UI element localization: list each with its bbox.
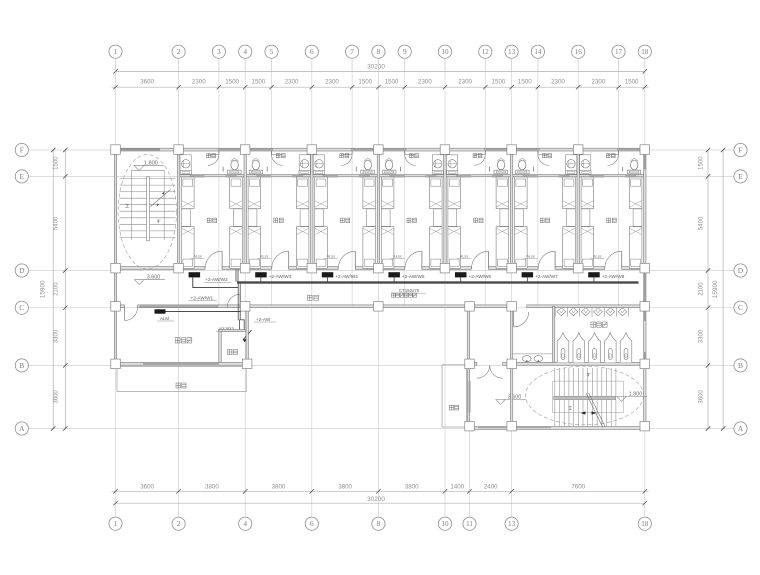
module 6 bed left top: [515, 177, 528, 209]
bottom axis circle 13: [505, 517, 518, 530]
module 6 washbasin: [566, 155, 577, 174]
staircase right break line: [586, 394, 603, 428]
module 2 bed right top: [296, 177, 309, 209]
column F/16: [574, 145, 584, 155]
module 4 toilet: [385, 160, 392, 170]
washroom door: [513, 308, 515, 327]
module 7 balcony label 阳台: [606, 154, 615, 158]
column B/11: [465, 359, 475, 369]
column A/13: [507, 421, 517, 431]
corridor door near riser: [239, 294, 241, 307]
staircase right landing bar: [554, 396, 616, 399]
svg-text:1500: 1500: [492, 79, 506, 86]
module 3 desk left: [315, 209, 324, 227]
column D/1: [111, 263, 121, 273]
staircase left break line + arrows: [151, 190, 171, 207]
module 5 balcony band: [484, 148, 507, 151]
module 1 bed right top: [230, 177, 243, 209]
stall 4: [605, 333, 617, 363]
svg-text:+2-AW/W7: +2-AW/W7: [535, 274, 558, 279]
corridor label 走廊: [308, 295, 319, 300]
svg-text:3600: 3600: [140, 79, 154, 86]
svg-text:+2-AW/W4: +2-AW/W4: [335, 274, 358, 279]
riser +2-AW vertical: [237, 284, 239, 321]
stair down mark right: [587, 374, 590, 377]
staircase right ellipse: [526, 366, 644, 425]
staircase right treads: [554, 368, 556, 396]
module 4 bed left top: [381, 177, 394, 209]
wire from W2 box: [193, 277, 239, 287]
module 5 balcony label 阳台: [473, 154, 482, 158]
svg-text:3800: 3800: [205, 483, 219, 490]
stall 1: [557, 333, 569, 363]
top axis circle 13: [505, 45, 518, 58]
bottom axis circle 6: [305, 517, 318, 530]
module 3 partition + door: [351, 151, 353, 154]
axis grid vertical lines: [115, 58, 117, 517]
top axis circle 7: [346, 45, 359, 58]
wall grid13 B-A: [510, 364, 512, 430]
left axis circle A: [15, 422, 28, 435]
svg-text:13: 13: [508, 520, 516, 528]
svg-text:E: E: [738, 172, 743, 181]
column D/4: [240, 263, 250, 273]
direction arrows: [581, 411, 586, 414]
svg-text:B: B: [738, 361, 743, 370]
module 3 desk right: [367, 209, 376, 227]
urinal 4: [594, 308, 603, 316]
svg-text:2300: 2300: [325, 79, 339, 86]
urinal 2: [569, 308, 578, 316]
wall poche segments east wall: [644, 272, 646, 321]
module 1 bed left top: [182, 177, 195, 209]
right dimension lines: [707, 150, 709, 429]
top axis circle 17: [612, 45, 625, 58]
ALM box: [155, 309, 166, 313]
stair up mark: [125, 204, 128, 207]
svg-text:1500: 1500: [54, 156, 60, 170]
column B/4: [242, 359, 252, 369]
module 7 bed left top: [581, 177, 594, 209]
module 6 room label 寝室: [540, 218, 549, 223]
module 5 room label 寝室: [474, 218, 483, 223]
west wall poche + A wall window segs: [469, 381, 471, 413]
module 1 toilet: [231, 160, 238, 170]
canopy right label 雨棚: [449, 405, 458, 410]
module 7 bed left bottom: [581, 227, 594, 269]
svg-text:ALss: ALss: [460, 255, 469, 259]
outer wall east (grid 18): [644, 148, 646, 429]
lower-right block west wall: [467, 306, 469, 429]
column B/18: [640, 359, 650, 369]
svg-text:10: 10: [441, 520, 449, 528]
top segment dimension line: [112, 86, 649, 88]
module 5 desk left: [448, 209, 457, 227]
svg-text:F: F: [738, 145, 742, 154]
column C/18: [640, 302, 650, 312]
svg-text:30200: 30200: [367, 63, 385, 70]
svg-text:C: C: [19, 303, 24, 312]
svg-text:1500: 1500: [225, 79, 239, 86]
svg-text:ALss: ALss: [260, 255, 269, 259]
column F/6: [307, 145, 317, 155]
svg-text:6: 6: [310, 47, 314, 56]
svg-text:11: 11: [466, 520, 473, 528]
svg-text:ALss: ALss: [593, 255, 602, 259]
svg-text:1500: 1500: [358, 79, 372, 86]
washroom divider wall: [552, 306, 554, 364]
module 6 desk left: [515, 209, 524, 227]
svg-text:+2-AW/W1: +2-AW/W1: [191, 296, 214, 301]
svg-text:D: D: [738, 266, 744, 275]
bottom axis circle 11: [463, 517, 476, 530]
module 7 toilet: [631, 160, 638, 170]
svg-text:4: 4: [243, 519, 247, 528]
module 2 balcony label 阳台: [276, 154, 285, 158]
module 4 balcony label 阳台: [409, 154, 418, 158]
staircase left treads: [120, 178, 176, 180]
svg-text:B: B: [19, 361, 24, 370]
module 2 partition + door: [271, 151, 273, 154]
stair up mark right: [569, 407, 572, 410]
module 1 balcony label 阳台: [207, 154, 216, 158]
column D/2: [174, 263, 184, 273]
svg-text:18: 18: [641, 520, 649, 528]
svg-text:ALss: ALss: [526, 255, 535, 259]
lower-right block bottom wall (A row): [466, 427, 646, 430]
room divider wall grid x=445: [444, 151, 446, 270]
room divider wall grid x=512: [510, 151, 512, 270]
svg-text:16: 16: [575, 48, 583, 56]
room divider wall grid x=312: [311, 151, 313, 270]
column D/16: [574, 263, 584, 273]
washroom counter: [513, 353, 553, 355]
module 2 bed left bottom: [248, 227, 261, 269]
svg-text:15900: 15900: [712, 280, 719, 298]
bottom axis circle 2: [172, 517, 185, 530]
distribution box +2-AW/W6: [455, 272, 467, 277]
urinal 1: [557, 308, 566, 316]
B row wall lower-left block: [114, 362, 248, 365]
top axis circle 14: [531, 45, 544, 58]
module 1 bed right bottom: [230, 227, 243, 269]
svg-text:17: 17: [615, 48, 623, 56]
left axis circle E: [15, 170, 28, 183]
module 6 desk right: [567, 209, 576, 227]
svg-text:1500: 1500: [699, 156, 705, 170]
module 6 bed left bottom: [515, 227, 528, 269]
column B/13: [507, 359, 517, 369]
svg-text:8: 8: [377, 47, 381, 56]
svg-text:2: 2: [177, 519, 181, 528]
module 4 room door: [421, 251, 423, 268]
distribution box +2-AW/W8: [588, 272, 600, 277]
room divider wall grid x=378: [377, 151, 379, 270]
module 6 balcony label 阳台: [543, 154, 552, 158]
svg-text:7: 7: [350, 47, 354, 56]
feeder arrow: [243, 330, 252, 340]
wall C row corridor south: [114, 305, 124, 308]
module 6 partition + door: [537, 151, 539, 154]
module 1 partition + door: [218, 151, 220, 154]
svg-text:6: 6: [310, 519, 314, 528]
distribution box +2-AW/W2: [189, 272, 201, 277]
left axis circle B: [15, 359, 28, 372]
svg-text:2300: 2300: [285, 79, 299, 86]
svg-text:12: 12: [482, 48, 490, 56]
module 5 partition + door: [484, 151, 486, 154]
module 7 desk right: [633, 209, 642, 227]
svg-text:+2-AW/W6: +2-AW/W6: [469, 274, 492, 279]
svg-text:ALss: ALss: [193, 255, 202, 259]
urinal 6: [618, 308, 627, 316]
electrical shaft walls: [219, 330, 221, 364]
svg-text:2400: 2400: [484, 483, 498, 490]
svg-text:2300: 2300: [592, 79, 606, 86]
column C/8: [374, 302, 384, 312]
svg-text:D: D: [19, 266, 25, 275]
block inner double door arcs: [477, 365, 490, 378]
svg-text:ALM: ALM: [160, 316, 169, 321]
column A/18: [640, 421, 650, 431]
right axis circle C: [734, 301, 747, 314]
right axis circle A: [734, 422, 747, 435]
cable tray label 梁下300安装: [391, 293, 416, 297]
module 3 toilet: [364, 160, 371, 170]
svg-text:3600: 3600: [699, 390, 705, 404]
svg-text:A: A: [738, 424, 744, 433]
svg-text:+2-AW/W8: +2-AW/W8: [602, 274, 625, 279]
svg-text:14: 14: [534, 48, 542, 56]
canopy right 雨棚: [442, 365, 467, 427]
svg-text:+2-AW/W2: +2-AW/W2: [205, 277, 228, 282]
column B/1: [111, 359, 121, 369]
svg-text:3300: 3300: [699, 329, 705, 343]
module 2 desk left: [248, 209, 257, 227]
module 3 bed left bottom: [315, 227, 328, 269]
column D/6: [307, 263, 317, 273]
svg-text:C: C: [738, 303, 743, 312]
svg-text:3: 3: [217, 47, 221, 56]
stall 5: [620, 333, 632, 363]
svg-text:7600: 7600: [571, 483, 585, 490]
module 1 room label 寝室: [207, 218, 216, 223]
column D/13: [507, 263, 517, 273]
svg-text:1500: 1500: [625, 79, 639, 86]
module 5 desk right: [500, 209, 509, 227]
module 6 bed right bottom: [563, 227, 576, 269]
column F/8: [374, 145, 384, 155]
column C/4: [240, 302, 250, 312]
distribution box +2-AW/W4: [322, 272, 334, 277]
right axis circle E: [734, 170, 747, 183]
module 3 room door: [354, 251, 356, 268]
F wall poche over stair block: [121, 148, 160, 150]
module 7 bed right bottom: [629, 227, 642, 269]
svg-text:1500: 1500: [385, 79, 399, 86]
room divider wall grid x=245: [244, 151, 246, 270]
module 2 room door: [288, 251, 290, 268]
svg-text:A: A: [19, 424, 25, 433]
top axis circle 8: [372, 45, 385, 58]
svg-text:1500: 1500: [518, 79, 532, 86]
svg-text:30200: 30200: [367, 496, 385, 503]
svg-text:3300: 3300: [54, 329, 60, 343]
bottom axis circle 8: [372, 517, 385, 530]
top axis circle 10: [438, 45, 451, 58]
stair flight edge left: [130, 170, 132, 240]
module 6 bed right top: [563, 177, 576, 209]
right axis circle F: [734, 143, 747, 156]
column D/18: [640, 263, 650, 273]
bottom axis circle 10: [438, 517, 451, 530]
svg-text:F: F: [20, 145, 24, 154]
module 4 bed left bottom: [381, 227, 394, 269]
window band corridor south wall (activity room): [140, 305, 219, 307]
module 1 desk left: [182, 209, 191, 227]
top axis circle 18: [638, 45, 651, 58]
top axis circle 6: [305, 45, 318, 58]
canopy lower-left 雨棚: [117, 367, 246, 392]
column C/11: [465, 302, 475, 312]
module 7 balcony band: [617, 148, 640, 151]
svg-text:2300: 2300: [458, 79, 472, 86]
wall E row balcony-room: [179, 175, 645, 177]
wire ALM to riser: [166, 310, 242, 312]
module 1 room door: [221, 251, 223, 268]
module 5 bed left top: [448, 177, 461, 209]
module 5 bed right bottom: [496, 227, 509, 269]
module 7 partition + door: [618, 151, 620, 154]
module 6 toilet: [519, 160, 526, 170]
column C/1: [111, 302, 121, 312]
module 1 washbasin: [180, 155, 191, 174]
corridor cable tray CT150x75: [237, 281, 639, 283]
svg-text:1500: 1500: [252, 79, 266, 86]
module 3 bed left top: [315, 177, 328, 209]
module 5 washbasin: [446, 155, 457, 174]
module 4 balcony band: [383, 148, 406, 151]
column F/4: [240, 145, 250, 155]
svg-text:9: 9: [403, 47, 407, 56]
distribution box +2-AW/W7: [522, 272, 534, 277]
module 4 desk left: [381, 209, 390, 227]
staircase left center rail: [147, 177, 150, 241]
top axis circle 9: [398, 45, 411, 58]
module 4 bed right top: [430, 177, 443, 209]
bottom total dimension line 30200: [116, 502, 645, 504]
urinal row top line: [555, 307, 629, 309]
module 2 washbasin: [299, 155, 310, 174]
tray riser to D wall: [235, 270, 237, 282]
column F/2: [174, 145, 184, 155]
column F/10: [440, 145, 450, 155]
distribution box +2-AW/W5: [388, 272, 400, 277]
svg-text:15900: 15900: [40, 280, 47, 298]
svg-text:1400: 1400: [450, 483, 464, 490]
staircase left landing top line: [131, 169, 164, 171]
module 7 room label 寝室: [607, 218, 616, 223]
left axis circle F: [15, 143, 28, 156]
svg-text:4: 4: [243, 47, 247, 56]
module 7 bed right top: [629, 177, 642, 209]
svg-text:5400: 5400: [699, 216, 705, 230]
module 3 balcony band: [351, 148, 374, 151]
svg-text:3800: 3800: [338, 483, 352, 490]
B row wall lower-right block: [466, 362, 477, 365]
bottom axis circle 4: [239, 517, 252, 530]
svg-text:+2-AW/W3: +2-AW/W3: [269, 274, 292, 279]
wall D row rooms-corridor: [114, 267, 205, 270]
activity room label 活动室: [175, 338, 192, 343]
svg-text:3800: 3800: [405, 483, 419, 490]
column C/13: [507, 302, 517, 312]
staircase left block ellipse: [118, 155, 176, 269]
svg-text:E: E: [20, 172, 25, 181]
top axis circle 3: [212, 45, 225, 58]
module 5 bed left bottom: [448, 227, 461, 269]
canopy label 雨棚: [176, 383, 186, 388]
distribution box +2-AW/W3: [255, 272, 267, 277]
column F/13: [507, 145, 517, 155]
activity room door arc: [124, 306, 126, 320]
svg-text:2: 2: [177, 47, 181, 56]
svg-text:ALss: ALss: [327, 255, 336, 259]
staircase right stairwell boundary: [553, 381, 624, 413]
top total dimension line 30200: [116, 70, 645, 72]
module 2 toilet: [252, 160, 259, 170]
module 7 desk left: [581, 209, 590, 227]
stall 3: [589, 333, 601, 363]
svg-text:2300: 2300: [192, 79, 206, 86]
module 3 bed right bottom: [363, 227, 376, 269]
module 2 balcony band: [250, 148, 273, 151]
module 7 washbasin: [580, 155, 591, 174]
bottom axis circle 18: [638, 517, 651, 530]
module 6 room door: [554, 251, 556, 268]
column F/18: [640, 145, 650, 155]
svg-text:+2-AW: +2-AW: [256, 317, 271, 322]
svg-text:2100: 2100: [699, 282, 705, 296]
axis grid horizontal lines: [28, 149, 734, 151]
module 2 room label 寝室: [274, 218, 283, 223]
module 6 balcony band: [517, 148, 540, 151]
module 2 bed left top: [248, 177, 261, 209]
module 2 bed right bottom: [296, 227, 309, 269]
module 5 bed right top: [496, 177, 509, 209]
svg-text:2300: 2300: [418, 79, 432, 86]
wall grid 2 stair/room: [177, 148, 179, 269]
left dimension lines: [64, 150, 66, 429]
module 3 room label 寝室: [340, 218, 349, 223]
module 4 washbasin: [432, 155, 443, 174]
module 3 bed right top: [363, 177, 376, 209]
module 1 balcony band: [218, 148, 241, 151]
top axis circle 5: [265, 45, 278, 58]
svg-text:ALss: ALss: [393, 255, 402, 259]
svg-text:8: 8: [377, 519, 381, 528]
bottom axis circle 1: [109, 517, 122, 530]
svg-text:1: 1: [114, 47, 118, 56]
urinal 5: [606, 308, 615, 316]
svg-text:1: 1: [114, 519, 118, 528]
svg-text:2300: 2300: [551, 79, 565, 86]
svg-text:13: 13: [508, 48, 516, 56]
svg-text:5400: 5400: [54, 216, 60, 230]
left axis circle D: [15, 264, 28, 277]
module 1 bed left bottom: [182, 227, 195, 269]
svg-text:CT150x75: CT150x75: [399, 288, 420, 293]
